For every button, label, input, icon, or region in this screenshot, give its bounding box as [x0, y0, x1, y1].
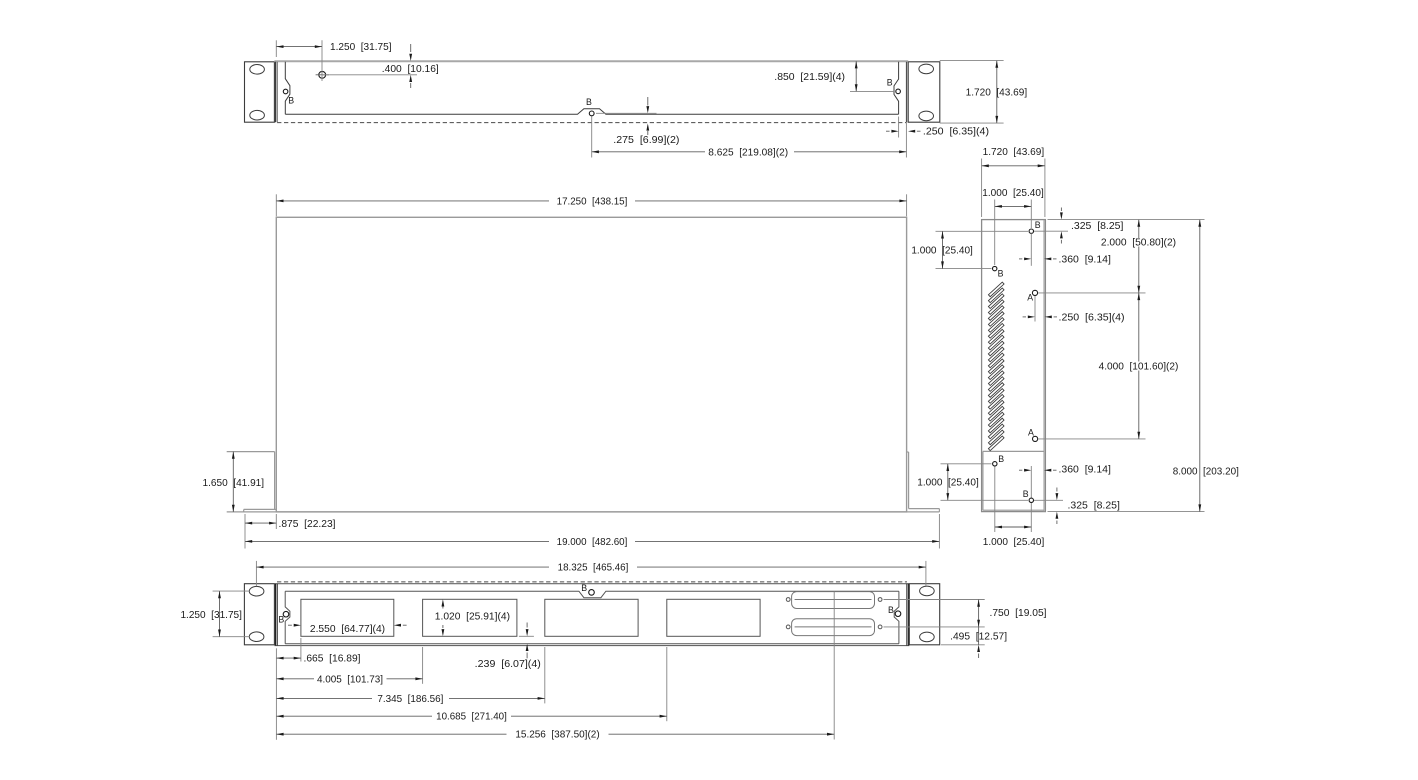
dim .360 bottom leader line [1030, 466, 1032, 498]
dim .495 extension line [941, 644, 985, 646]
dim 1.000 left extension lines [936, 230, 1029, 232]
dim .750 [19.05] [978, 600, 980, 627]
front view: inner outline right with notch [894, 591, 899, 644]
svg-text:1.020 [25.91](4): 1.020 [25.91](4) [435, 611, 510, 622]
svg-text:1.000 [25.40]: 1.000 [25.40] [917, 478, 979, 489]
svg-text:B: B [998, 268, 1004, 278]
dim 1.000 [25.40] left [942, 231, 944, 268]
svg-text:15.256 [387.50](2): 15.256 [387.50](2) [515, 730, 599, 741]
dim .325 bottom extension line [1034, 499, 1063, 501]
svg-text:.360 [9.14]: .360 [9.14] [1059, 464, 1112, 475]
dim 8.625 [219.08](2) [592, 151, 705, 153]
svg-text:1.000 [25.40]: 1.000 [25.40] [982, 188, 1044, 199]
svg-text:1.720 [43.69]: 1.720 [43.69] [966, 87, 1028, 98]
dim 4.005 extension line [422, 647, 424, 684]
front view: panel outline [274, 583, 909, 585]
front view: inner outline left with notch [285, 591, 290, 644]
top view: left panel edge [275, 62, 277, 122]
side view: hole B upper right [1029, 229, 1033, 233]
plan view: left flange [227, 451, 275, 453]
dim .275 hole extension line [596, 112, 657, 114]
dim .250 [6.35](4) side [1023, 316, 1026, 318]
svg-text:B: B [288, 96, 294, 106]
hole level extension line [322, 74, 417, 76]
svg-text:1.250 [31.75]: 1.250 [31.75] [330, 42, 392, 53]
svg-text:.325 [8.25]: .325 [8.25] [1068, 501, 1121, 512]
front view: cutout 3 [545, 599, 638, 636]
svg-text:2.000 [50.80](2): 2.000 [50.80](2) [1101, 238, 1176, 249]
svg-text:1.000 [25.40]: 1.000 [25.40] [983, 537, 1045, 548]
dim .250 leader line [1034, 296, 1036, 322]
svg-text:1.650 [41.91]: 1.650 [41.91] [203, 478, 265, 489]
top view: right panel edge [905, 62, 907, 122]
dim 1.000 top extension lines [994, 200, 996, 266]
svg-text:1.000 [25.40]: 1.000 [25.40] [911, 246, 973, 257]
side view: outline [982, 220, 1046, 512]
side view: ventilation slots [988, 282, 1004, 297]
dim 17.250 [438.15] [276, 200, 549, 202]
dim 10.685 extension line [666, 647, 668, 721]
front view: hole B right [895, 611, 901, 617]
dim 18.325 [465.46] [256, 566, 549, 568]
svg-text:18.325 [465.46]: 18.325 [465.46] [558, 563, 629, 574]
svg-text:A: A [1028, 427, 1034, 437]
dim .360 [9.14] bottom [1019, 469, 1022, 471]
svg-text:10.685 [271.40]: 10.685 [271.40] [436, 712, 507, 723]
dim 19.000 [482.60] [245, 540, 549, 542]
dim 1.000 [25.40] bottom [995, 526, 1032, 528]
side view: hole B lower left [993, 462, 997, 466]
dim 1.720 [43.69] [996, 61, 998, 124]
dim 1.250 extension lines [275, 40, 277, 57]
hole A lower extension line [1038, 438, 1145, 440]
dim .360 top leader line [1030, 233, 1032, 265]
svg-text:.665 [16.89]: .665 [16.89] [304, 654, 361, 665]
top view: left ear slot upper [250, 65, 265, 75]
top view: right mounting ear [908, 62, 940, 122]
svg-text:8.625 [219.08](2): 8.625 [219.08](2) [708, 147, 788, 158]
dim 2.550 [64.77](4) [288, 624, 292, 626]
svg-text:1.720 [43.69]: 1.720 [43.69] [983, 147, 1045, 158]
front view: right ear slot lower [920, 632, 935, 642]
svg-text:.850 [21.59](4): .850 [21.59](4) [774, 72, 845, 83]
side view: hole A upper [1032, 290, 1037, 295]
dim .665 extension lines [275, 648, 277, 740]
dim 1.020 [25.91](4) [442, 605, 444, 609]
dim 15.256 [387.50](2) [276, 733, 506, 735]
svg-text:B: B [278, 615, 284, 625]
top view: hole B left [283, 89, 288, 94]
plan view: right flange [907, 451, 909, 453]
svg-text:.875 [22.23]: .875 [22.23] [279, 519, 336, 530]
svg-text:8.000 [203.20]: 8.000 [203.20] [1173, 466, 1239, 477]
front view: D-sub connector lower [792, 619, 875, 636]
dim .875 extension line [275, 514, 277, 529]
svg-text:7.345 [186.56]: 7.345 [186.56] [377, 694, 443, 705]
hole A upper extension line [1038, 292, 1145, 294]
top view: inner outline bottom with center notch [285, 109, 898, 115]
front view: right ear slot upper [920, 586, 935, 596]
front view: hole B top center [589, 590, 595, 596]
svg-text:B: B [998, 454, 1004, 464]
dim 1.250 extension lines [213, 590, 250, 592]
dim 7.345 [186.56] [276, 697, 372, 699]
svg-text:B: B [586, 97, 592, 107]
dim .239 [6.07](4) [526, 623, 528, 628]
front view: hidden edge dashed [277, 581, 907, 583]
dim .239 extension line [519, 635, 534, 637]
svg-text:B: B [1023, 489, 1029, 499]
svg-text:2.550 [64.77](4): 2.550 [64.77](4) [310, 624, 385, 635]
dim .665 [16.89] [276, 657, 301, 659]
plan view: bottom edge [227, 511, 940, 513]
dim .325 [8.25] top [1060, 208, 1062, 212]
svg-text:.750 [19.05]: .750 [19.05] [990, 608, 1047, 619]
top view: front edge line [274, 60, 908, 62]
dim .250 extension line [898, 117, 900, 138]
front view: left ear slot lower [249, 632, 264, 642]
side view: bottom flange box [983, 450, 1044, 452]
front view: right mounting ear [909, 584, 939, 645]
dim .275 [6.99](2) [647, 97, 649, 106]
svg-text:17.250 [438.15]: 17.250 [438.15] [557, 196, 628, 207]
svg-text:.250 [6.35](4): .250 [6.35](4) [923, 127, 989, 138]
top view: right ear slot upper [919, 64, 934, 74]
top view: hole B center [589, 111, 594, 116]
svg-text:A: A [1027, 292, 1033, 302]
bottom edge extension line [1048, 511, 1205, 513]
top view: hole with crosshair [319, 71, 326, 78]
svg-text:.275 [6.99](2): .275 [6.99](2) [613, 135, 679, 146]
dim .850 extension line [850, 90, 894, 92]
dim 17.250 extension lines [275, 194, 277, 216]
svg-text:B: B [888, 605, 894, 615]
front view: inner outline top with center notch [285, 591, 899, 598]
dim .850 [21.59](4) [855, 61, 857, 91]
dim 19.000 extension lines [244, 514, 246, 549]
top view: right ear slot lower [919, 111, 934, 121]
front view: D-sub connector upper [792, 592, 875, 609]
dim 8.625 extension line [591, 117, 593, 158]
front view: hole B left [283, 611, 289, 617]
dim .250 [6.35](4) [886, 130, 890, 132]
svg-text:B: B [581, 583, 587, 593]
dim .750 extension lines [884, 599, 985, 601]
top view: hole B right [896, 89, 901, 94]
plan view: chassis body rectangle [276, 217, 906, 512]
top view: inner outline right with notch [894, 62, 899, 114]
side view: inner right line [1043, 220, 1045, 512]
top view: inner outline left with notch [285, 62, 290, 114]
dim 1.720 extension lines [981, 159, 983, 218]
dim .400 [10.16] [410, 44, 412, 52]
front view: cutout 4 [667, 599, 760, 636]
svg-text:19.000 [482.60]: 19.000 [482.60] [557, 537, 628, 548]
dim 7.345 extension line [544, 647, 546, 703]
front view: inner outline bottom [285, 643, 899, 645]
side view: hole B lower right [1029, 498, 1033, 502]
dim 1.720 extension lines [940, 60, 1004, 62]
front view: left mounting ear [244, 584, 274, 645]
side view: hole A lower [1033, 436, 1038, 441]
front view: left panel edge [275, 584, 277, 646]
dim 1.000 left-bottom extension lines [941, 463, 992, 465]
svg-text:.360 [9.14]: .360 [9.14] [1059, 254, 1112, 265]
top view: hidden edge dashed [277, 122, 906, 124]
svg-text:.325 [8.25]: .325 [8.25] [1071, 221, 1124, 232]
svg-text:B: B [887, 77, 893, 87]
dim 1.250 [31.75] front [219, 591, 221, 637]
front view: D-sub centerline [833, 592, 835, 740]
dim 1.000 [25.40] left-bottom [947, 464, 949, 501]
dim 8.000 [203.20] [1199, 220, 1201, 512]
dim .875 [22.23] [245, 522, 276, 524]
svg-text:.400 [10.16]: .400 [10.16] [382, 64, 439, 75]
svg-text:.239 [6.07](4): .239 [6.07](4) [475, 659, 541, 670]
dim .495 [12.57] [978, 627, 980, 645]
top edge extension line [1048, 219, 1205, 221]
dim 1.000 [25.40] top [995, 205, 1032, 207]
front view: cutout 2 [423, 599, 517, 636]
svg-text:.250 [6.35](4): .250 [6.35](4) [1059, 312, 1125, 323]
dim .360 [9.14] top [1019, 258, 1022, 260]
svg-text:4.000 [101.60](2): 4.000 [101.60](2) [1099, 362, 1179, 373]
top view: left mounting ear [245, 62, 275, 122]
dim 1.250 [31.75] [276, 46, 322, 48]
dim 1.650 [41.91] [232, 452, 234, 512]
side view: hole B upper left [993, 266, 997, 270]
front view: left ear slot upper [249, 586, 264, 596]
svg-text:.495 [12.57]: .495 [12.57] [950, 631, 1007, 642]
front view: cutout 1 [301, 599, 394, 636]
dim 4.005 [101.73] [276, 678, 314, 680]
front view: right panel edge [906, 584, 908, 646]
dim 1.000 bottom extension lines [994, 467, 996, 533]
dim .325 top extension line [1034, 230, 1068, 232]
dim 18.325 extension lines [255, 561, 257, 586]
dim 2.000 and 4.000 chained lines [1138, 220, 1140, 238]
dim 10.685 [271.40] [276, 715, 432, 717]
dim .325 [8.25] bottom [1056, 488, 1058, 492]
top view: left ear slot lower [250, 110, 265, 120]
svg-text:4.005 [101.73]: 4.005 [101.73] [317, 674, 383, 685]
svg-text:1.250 [31.75]: 1.250 [31.75] [180, 610, 242, 621]
dim 1.720 [43.69] side [982, 165, 1045, 167]
svg-text:B: B [1035, 220, 1041, 230]
